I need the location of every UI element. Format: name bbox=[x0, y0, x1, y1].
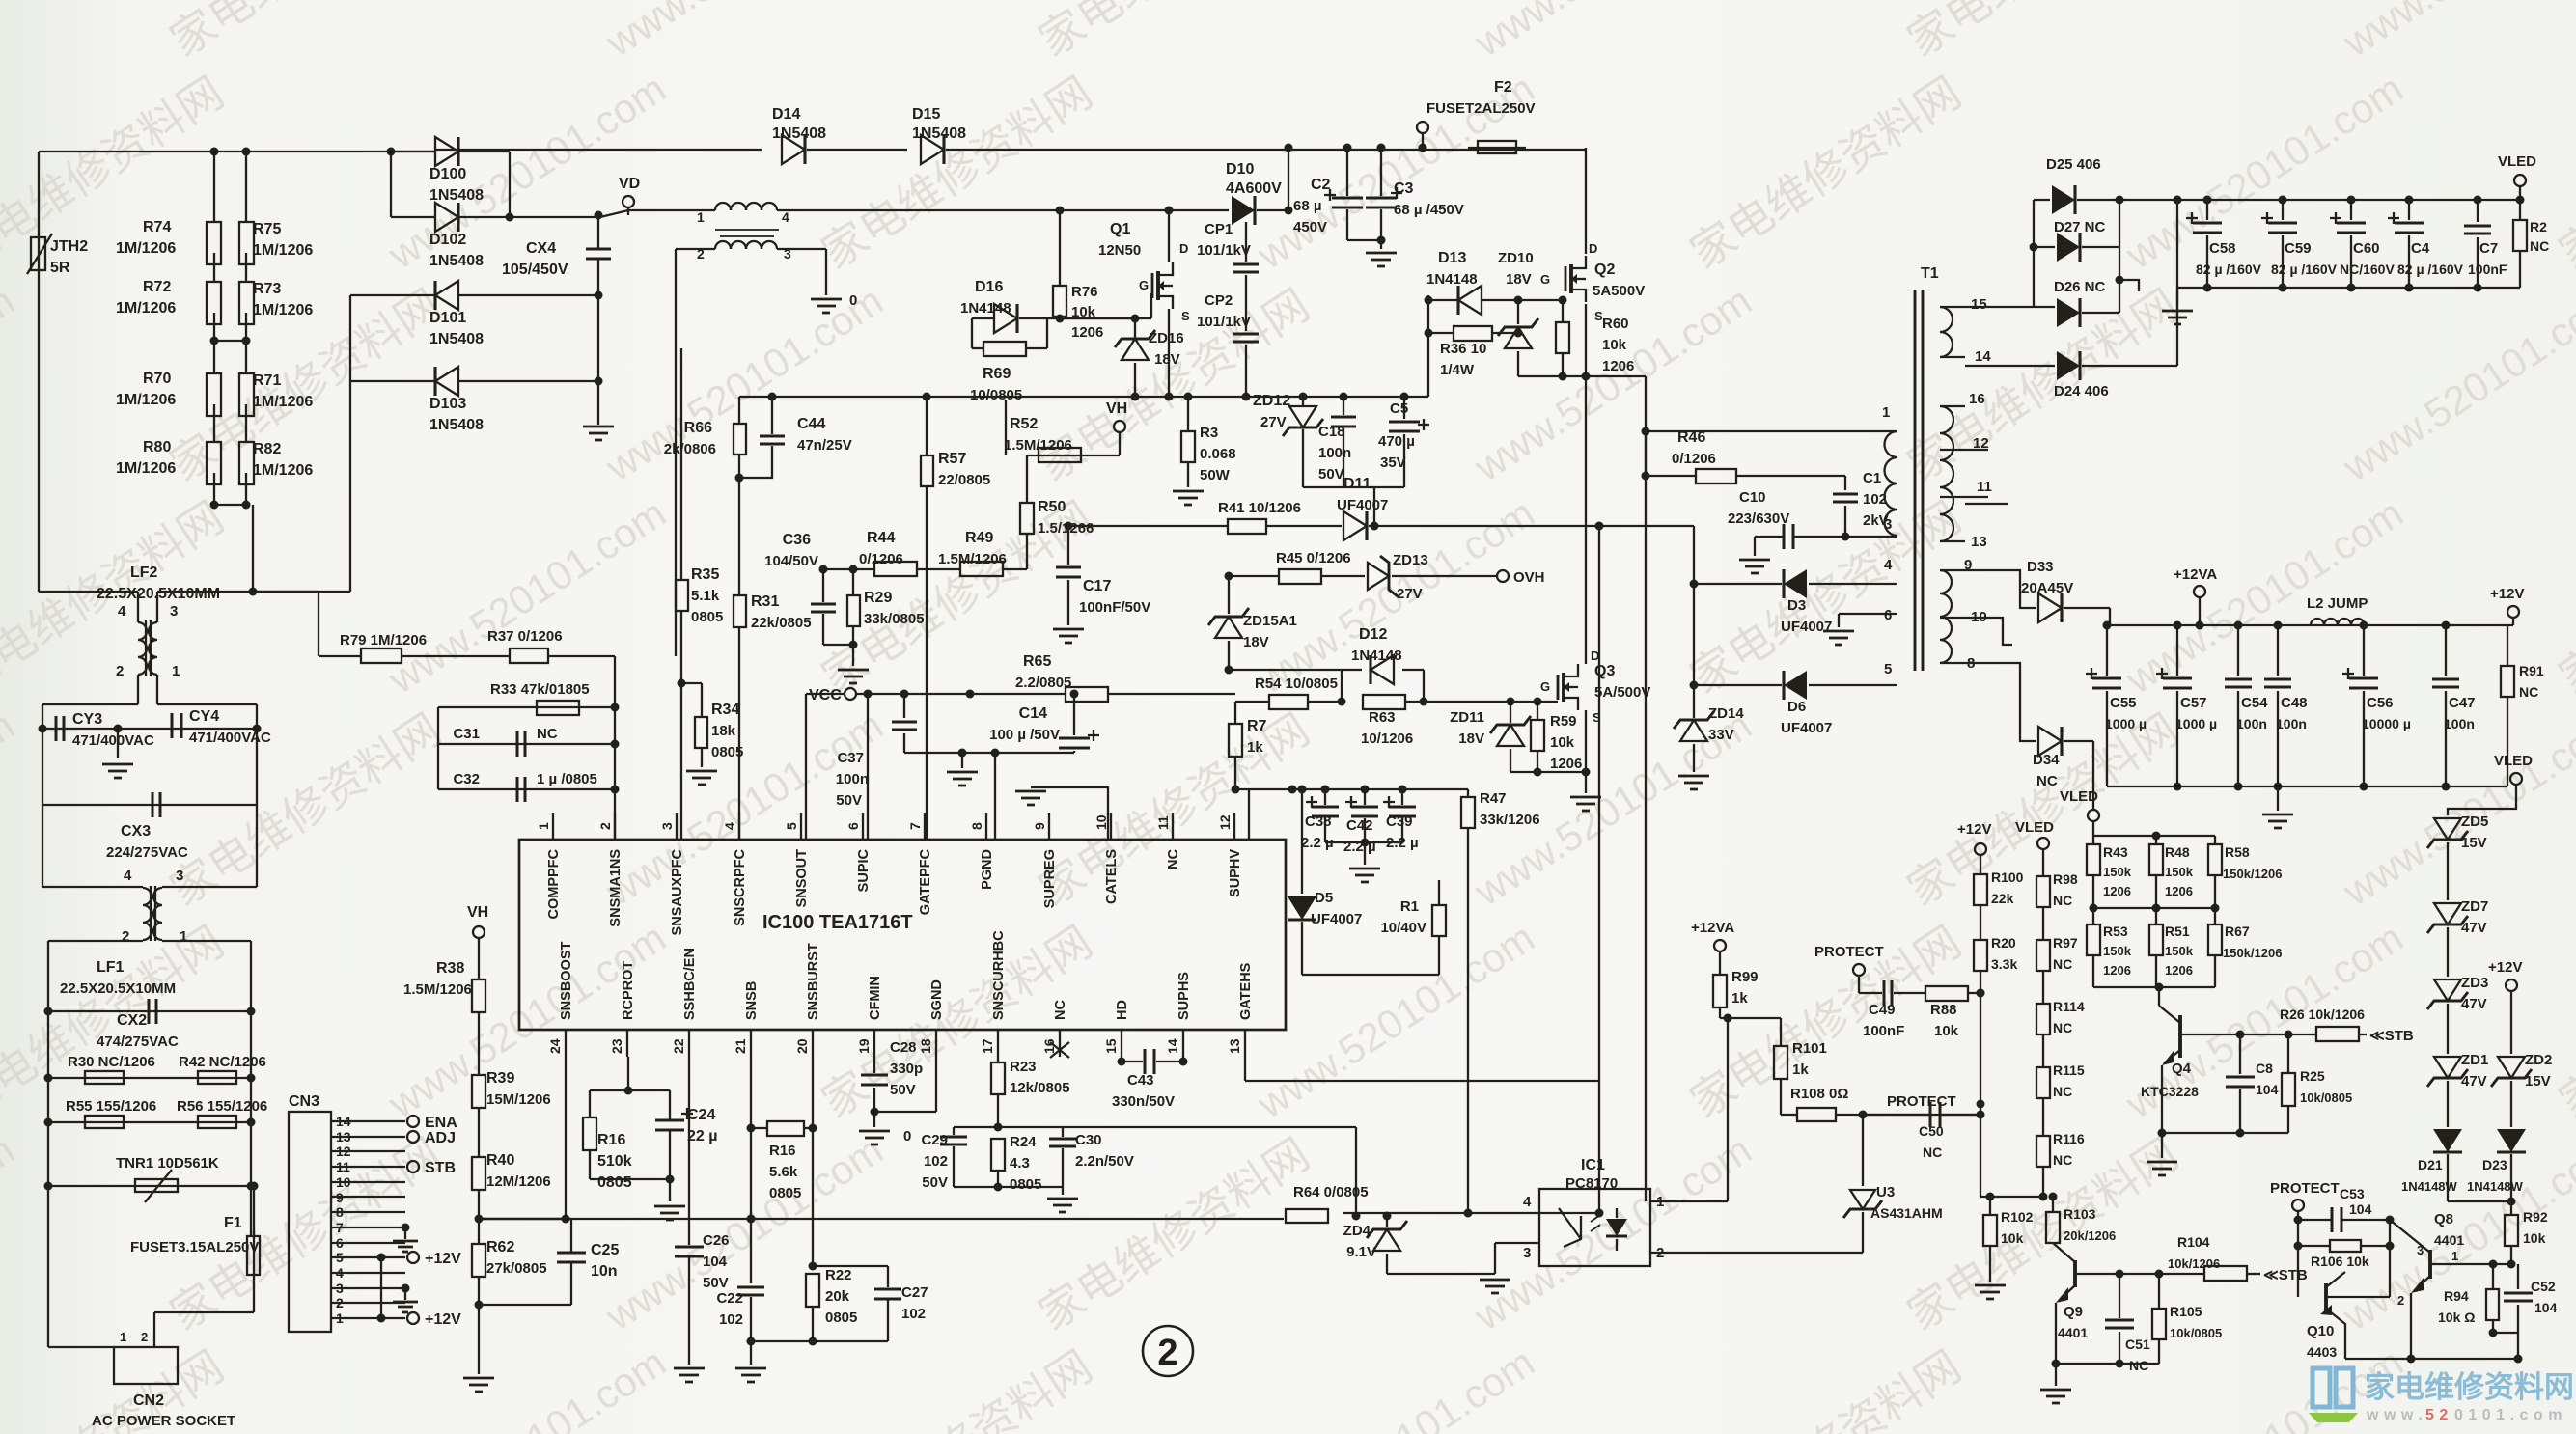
svg-text:+12V: +12V bbox=[425, 1251, 461, 1267]
wire Q8 base row bbox=[2430, 1263, 2511, 1265]
svg-text:NC: NC bbox=[2129, 1358, 2148, 1373]
svg-text:C25: C25 bbox=[591, 1242, 619, 1258]
svg-text:4401: 4401 bbox=[2434, 1232, 2464, 1248]
svg-text:1N5408: 1N5408 bbox=[429, 253, 484, 269]
capacitor C39 bbox=[1401, 789, 1403, 805]
resistor R106 bbox=[2298, 1245, 2330, 1247]
svg-text:C53: C53 bbox=[2340, 1186, 2365, 1201]
zener ZD14 bbox=[1693, 685, 1695, 718]
wire to CN2 bbox=[253, 1281, 255, 1312]
resistor R49 bbox=[917, 568, 960, 570]
svg-text:CX4: CX4 bbox=[526, 240, 556, 257]
resistor R102 bbox=[1989, 1197, 1991, 1215]
svg-text:1: 1 bbox=[1882, 404, 1890, 421]
capacitor CY4 bbox=[172, 713, 181, 738]
svg-text:R59: R59 bbox=[1550, 713, 1577, 730]
svg-text:18V: 18V bbox=[1243, 634, 1269, 650]
svg-text:104: 104 bbox=[2256, 1082, 2279, 1097]
capacitor C59 bbox=[2279, 196, 2287, 205]
capacitor CX3 bbox=[42, 729, 43, 805]
svg-text:12M/1206: 12M/1206 bbox=[486, 1173, 551, 1190]
svg-text:R29: R29 bbox=[864, 590, 892, 606]
svg-text:SNSB: SNSB bbox=[744, 981, 760, 1020]
svg-text:AS431AHM: AS431AHM bbox=[1870, 1205, 1943, 1221]
svg-text:GATEHS: GATEHS bbox=[1238, 962, 1254, 1020]
wire pin8 bbox=[994, 753, 996, 840]
svg-text:R65: R65 bbox=[1023, 653, 1051, 670]
svg-text:0805: 0805 bbox=[597, 1174, 632, 1191]
node 12V pin5 bbox=[407, 1252, 419, 1263]
ground bbox=[2055, 1364, 2057, 1386]
resistor R2 bbox=[2516, 196, 2525, 205]
svg-text:SGND: SGND bbox=[929, 979, 945, 1020]
svg-text:PROTECT: PROTECT bbox=[2270, 1180, 2340, 1197]
ground pin6 bbox=[1838, 614, 1840, 627]
svg-text:100n: 100n bbox=[2276, 716, 2307, 731]
svg-text:13: 13 bbox=[1971, 534, 1987, 550]
svg-text:STB: STB bbox=[425, 1160, 456, 1176]
svg-text:4: 4 bbox=[118, 603, 126, 620]
wire pin2 column bbox=[614, 656, 616, 840]
wire Q4 base row bbox=[2180, 1034, 2316, 1035]
svg-text:450V: 450V bbox=[1293, 219, 1327, 235]
svg-text:≪STB: ≪STB bbox=[2369, 1028, 2414, 1044]
svg-text:R40: R40 bbox=[486, 1152, 514, 1169]
svg-text:47V: 47V bbox=[2461, 1073, 2487, 1089]
transistor Q8 bbox=[2428, 1250, 2432, 1279]
svg-text:D23: D23 bbox=[2482, 1157, 2507, 1172]
node VCC bbox=[845, 688, 856, 700]
capacitor CX2 bbox=[48, 1010, 251, 1012]
wire feedback vertical bbox=[1645, 431, 1647, 1201]
transformer T1 winding 9-10-8 bbox=[1940, 569, 1965, 571]
svg-text:20: 20 bbox=[794, 1038, 810, 1054]
svg-text:10000 µ: 10000 µ bbox=[2362, 716, 2411, 731]
svg-text:D3: D3 bbox=[1787, 597, 1806, 614]
node 12V right bbox=[2506, 979, 2517, 991]
svg-text:R46: R46 bbox=[1677, 429, 1705, 446]
svg-text:3: 3 bbox=[659, 822, 675, 830]
resistor R20 bbox=[1980, 905, 1981, 940]
svg-text:82 µ /160V: 82 µ /160V bbox=[2271, 262, 2338, 277]
svg-text:C17: C17 bbox=[1083, 578, 1111, 594]
resistor R24 bbox=[991, 1139, 1005, 1171]
resistor R59 bbox=[1537, 702, 1538, 720]
svg-text:UF4007: UF4007 bbox=[1311, 911, 1362, 927]
resistor R36 bbox=[1427, 295, 1429, 397]
svg-text:SNSBOOST: SNSBOOST bbox=[559, 941, 574, 1020]
wire bbox=[1288, 148, 1289, 210]
svg-text:NC: NC bbox=[2053, 1020, 2072, 1035]
capacitor C26 bbox=[688, 1057, 690, 1245]
svg-text:C60: C60 bbox=[2353, 240, 2380, 257]
svg-text:R99: R99 bbox=[1731, 969, 1759, 985]
svg-text:50W: 50W bbox=[1200, 467, 1231, 483]
svg-text:R42 NC/1206: R42 NC/1206 bbox=[179, 1054, 266, 1070]
svg-text:27k/0805: 27k/0805 bbox=[486, 1260, 547, 1277]
svg-text:G: G bbox=[1540, 679, 1550, 694]
wire bbox=[954, 1186, 1063, 1188]
svg-text:D26 NC: D26 NC bbox=[2054, 279, 2106, 295]
svg-text:D100: D100 bbox=[429, 166, 466, 182]
svg-text:150k: 150k bbox=[2103, 944, 2132, 958]
svg-text:3.3k: 3.3k bbox=[1991, 956, 2017, 972]
svg-text:2: 2 bbox=[116, 663, 124, 679]
svg-text:0805: 0805 bbox=[691, 609, 723, 625]
wire bbox=[2448, 1200, 2511, 1202]
capacitor CP1 bbox=[1245, 222, 1247, 262]
capacitor C10 bbox=[1755, 536, 1783, 538]
svg-text:R66: R66 bbox=[684, 420, 712, 436]
svg-text:C49: C49 bbox=[1869, 1002, 1896, 1018]
svg-text:50V: 50V bbox=[922, 1174, 948, 1191]
diode D12 bbox=[1229, 669, 1342, 671]
diode D16 bbox=[971, 318, 973, 348]
svg-text:150k/1206: 150k/1206 bbox=[2223, 867, 2282, 881]
svg-text:D102: D102 bbox=[429, 232, 466, 248]
svg-text:C50: C50 bbox=[1919, 1123, 1944, 1139]
svg-text:5: 5 bbox=[784, 822, 799, 830]
svg-text:102: 102 bbox=[1863, 491, 1887, 508]
svg-text:R41 10/1206: R41 10/1206 bbox=[1218, 500, 1301, 516]
svg-text:5R: 5R bbox=[50, 260, 70, 276]
svg-text:R22: R22 bbox=[825, 1267, 852, 1283]
svg-text:10k: 10k bbox=[1550, 734, 1575, 751]
wire U3 column bbox=[1862, 1115, 1864, 1186]
svg-text:22/0805: 22/0805 bbox=[938, 472, 990, 488]
node VLED bbox=[2514, 175, 2526, 186]
svg-text:82 µ /160V: 82 µ /160V bbox=[2196, 262, 2262, 277]
svg-text:C22: C22 bbox=[716, 1290, 743, 1307]
svg-text:1: 1 bbox=[697, 209, 705, 225]
capacitor C48 bbox=[2277, 625, 2279, 676]
svg-text:100n: 100n bbox=[836, 771, 869, 787]
resistor R48 bbox=[2155, 836, 2157, 844]
svg-text:50V: 50V bbox=[1318, 466, 1344, 483]
svg-text:2.2 µ: 2.2 µ bbox=[1343, 839, 1376, 855]
svg-text:33k/1206: 33k/1206 bbox=[1480, 812, 1540, 828]
resistor R56 bbox=[198, 1116, 236, 1128]
resistor R1 bbox=[1302, 974, 1439, 976]
svg-text:R100: R100 bbox=[1991, 869, 2024, 885]
svg-text:1206: 1206 bbox=[1550, 756, 1582, 772]
svg-text:150k/1206: 150k/1206 bbox=[2223, 946, 2282, 960]
svg-text:RCPROT: RCPROT bbox=[621, 961, 636, 1020]
capacitor C7 bbox=[2474, 196, 2482, 205]
resistor R92 bbox=[2510, 1201, 2512, 1215]
svg-text:10k Ω: 10k Ω bbox=[2438, 1310, 2475, 1325]
ground bbox=[117, 729, 119, 758]
svg-text:ZD1: ZD1 bbox=[2461, 1052, 2488, 1068]
diode D6 bbox=[1694, 684, 1782, 686]
svg-text:D: D bbox=[1179, 241, 1188, 256]
svg-text:0/1206: 0/1206 bbox=[859, 551, 903, 567]
svg-text:1206: 1206 bbox=[2103, 884, 2131, 898]
svg-text:0805: 0805 bbox=[1010, 1176, 1041, 1193]
svg-text:C57: C57 bbox=[2180, 695, 2207, 711]
resistor R74 bbox=[213, 152, 215, 222]
svg-text:R50: R50 bbox=[1038, 499, 1066, 515]
svg-text:Q2: Q2 bbox=[1594, 262, 1615, 278]
svg-text:R116: R116 bbox=[2053, 1131, 2085, 1146]
svg-text:D27 NC: D27 NC bbox=[2054, 219, 2106, 235]
svg-text:0: 0 bbox=[903, 1128, 911, 1144]
svg-text:www.: www. bbox=[2366, 1407, 2427, 1423]
resistor R64 bbox=[1286, 1209, 1328, 1223]
svg-text:6: 6 bbox=[1884, 607, 1892, 623]
svg-text:18V: 18V bbox=[1458, 731, 1484, 747]
IC100 TEA1716T bbox=[519, 840, 1286, 1030]
resistor R50 bbox=[1003, 568, 1027, 570]
svg-text:VCC: VCC bbox=[809, 687, 842, 703]
wire bbox=[437, 707, 439, 789]
svg-text:R70: R70 bbox=[143, 371, 171, 387]
wire source rail Q2 bbox=[1518, 375, 1646, 377]
svg-text:LF2: LF2 bbox=[130, 565, 158, 581]
svg-text:C36: C36 bbox=[783, 532, 811, 548]
svg-text:10k/1206: 10k/1206 bbox=[2168, 1256, 2220, 1271]
resistor R75 bbox=[245, 152, 247, 222]
svg-text:18: 18 bbox=[918, 1038, 933, 1054]
svg-text:1N5408: 1N5408 bbox=[429, 331, 484, 347]
svg-text:Q1: Q1 bbox=[1110, 221, 1130, 237]
resistor R58 bbox=[2214, 836, 2216, 844]
svg-text:12: 12 bbox=[1217, 814, 1233, 830]
svg-text:R16: R16 bbox=[597, 1132, 625, 1148]
svg-text:C4: C4 bbox=[2411, 240, 2430, 257]
svg-text:8: 8 bbox=[969, 822, 984, 830]
svg-text:3: 3 bbox=[2417, 1243, 2424, 1257]
svg-text:VD: VD bbox=[619, 176, 640, 192]
capacitor CY3 bbox=[42, 728, 257, 730]
resistor R66 bbox=[738, 397, 740, 424]
resistor R43 bbox=[2092, 836, 2094, 844]
resistor R57 bbox=[926, 397, 928, 455]
svg-text:C59: C59 bbox=[2285, 240, 2312, 257]
resistor R45 bbox=[1229, 575, 1279, 577]
svg-text:5.6k: 5.6k bbox=[769, 1164, 798, 1180]
svg-text:R74: R74 bbox=[143, 219, 171, 235]
svg-text:R54 10/0805: R54 10/0805 bbox=[1255, 676, 1338, 692]
svg-text:1000 µ: 1000 µ bbox=[2175, 716, 2217, 731]
svg-text:D12: D12 bbox=[1359, 626, 1387, 643]
svg-text:+12VA: +12VA bbox=[1691, 920, 1734, 936]
svg-text:2.2n/50V: 2.2n/50V bbox=[1075, 1153, 1134, 1170]
svg-text:ENA: ENA bbox=[425, 1115, 457, 1131]
svg-text:474/275VAC: 474/275VAC bbox=[97, 1034, 179, 1050]
svg-text:ZD15A1: ZD15A1 bbox=[1243, 613, 1297, 629]
svg-text:R23: R23 bbox=[1010, 1059, 1037, 1075]
wire mid bbox=[2092, 875, 2094, 924]
svg-text:22.5X20.5X10MM: 22.5X20.5X10MM bbox=[60, 980, 176, 997]
svg-text:U3: U3 bbox=[1876, 1184, 1895, 1200]
capacitor C17 bbox=[1056, 567, 1081, 577]
svg-text:NC: NC bbox=[2530, 238, 2549, 254]
svg-text:23: 23 bbox=[609, 1038, 624, 1054]
svg-text:C26: C26 bbox=[703, 1232, 730, 1249]
wire Q4 emitter bbox=[2161, 1065, 2163, 1133]
ground bbox=[583, 427, 614, 440]
svg-text:R104: R104 bbox=[2177, 1234, 2210, 1250]
wire F2 to Q2 bbox=[1585, 148, 1587, 254]
ground bbox=[2277, 786, 2279, 811]
svg-text:101/1kV: 101/1kV bbox=[1197, 242, 1251, 259]
ground bbox=[1975, 1285, 2006, 1299]
svg-text:27V: 27V bbox=[1397, 586, 1423, 602]
resistor R22 bbox=[812, 1128, 814, 1266]
svg-text:VLED: VLED bbox=[2498, 153, 2536, 170]
capacitor C2 bbox=[1346, 148, 1348, 196]
svg-text:CFMIN: CFMIN bbox=[868, 976, 883, 1020]
svg-text:R72: R72 bbox=[143, 279, 171, 295]
svg-text:CP1: CP1 bbox=[1205, 221, 1233, 237]
svg-text:1N5408: 1N5408 bbox=[912, 125, 966, 142]
svg-text:1N4148W: 1N4148W bbox=[2467, 1179, 2524, 1194]
node VH bbox=[1119, 432, 1121, 455]
svg-text:R115: R115 bbox=[2053, 1062, 2085, 1078]
resistor R97 bbox=[2042, 907, 2044, 940]
svg-text:24: 24 bbox=[547, 1038, 563, 1054]
capacitor C3 bbox=[1380, 148, 1382, 196]
svg-text:CX2: CX2 bbox=[117, 1012, 147, 1029]
capacitor CP2 bbox=[1245, 275, 1247, 331]
svg-text:10: 10 bbox=[1971, 609, 1987, 625]
svg-text:C10: C10 bbox=[1739, 489, 1766, 506]
svg-text:1M/1206: 1M/1206 bbox=[253, 462, 313, 479]
resistor R103 bbox=[2052, 1197, 2054, 1212]
svg-text:SUPHV: SUPHV bbox=[1228, 849, 1243, 897]
svg-text:C44: C44 bbox=[797, 416, 825, 432]
resistor R65 bbox=[1066, 687, 1108, 702]
svg-text:Q3: Q3 bbox=[1594, 663, 1615, 679]
svg-text:100n: 100n bbox=[2236, 716, 2267, 731]
svg-text:+12V: +12V bbox=[1957, 821, 1991, 838]
wire pin10 ground bbox=[1031, 787, 1108, 840]
svg-text:NC: NC bbox=[2519, 684, 2538, 700]
svg-text:0.068: 0.068 bbox=[1200, 446, 1236, 462]
svg-text:R39: R39 bbox=[486, 1070, 514, 1087]
svg-text:35V: 35V bbox=[1380, 455, 1406, 471]
svg-text:R48: R48 bbox=[2165, 844, 2190, 860]
svg-text:R37 0/1206: R37 0/1206 bbox=[487, 628, 563, 645]
wire pin6 bbox=[867, 694, 869, 840]
svg-text:R94: R94 bbox=[2444, 1288, 2469, 1304]
svg-text:1: 1 bbox=[172, 663, 180, 679]
ground bbox=[478, 1277, 480, 1374]
svg-text:1206: 1206 bbox=[1602, 358, 1634, 374]
diode D5 bbox=[1301, 789, 1303, 894]
svg-text:NC/160V: NC/160V bbox=[2340, 262, 2395, 277]
svg-text:0: 0 bbox=[849, 292, 857, 309]
svg-text:2: 2 bbox=[141, 1330, 148, 1344]
svg-text:102: 102 bbox=[924, 1153, 948, 1170]
svg-text:R71: R71 bbox=[253, 372, 281, 389]
svg-text:CY4: CY4 bbox=[189, 708, 219, 725]
svg-text:R73: R73 bbox=[253, 281, 281, 297]
svg-text:NC: NC bbox=[2053, 1152, 2072, 1168]
wire Q8 emitter bbox=[2410, 1293, 2412, 1359]
diode D14 bbox=[782, 135, 805, 164]
resistor R70 bbox=[207, 373, 221, 416]
svg-text:4401: 4401 bbox=[2058, 1325, 2088, 1340]
svg-text:R79 1M/1206: R79 1M/1206 bbox=[340, 632, 427, 648]
svg-text:+12VA: +12VA bbox=[2174, 566, 2217, 583]
diode D10 bbox=[1232, 196, 1255, 225]
node ADJ bbox=[407, 1131, 419, 1143]
ground bbox=[2161, 1133, 2163, 1158]
resistor R51 bbox=[2149, 924, 2163, 955]
wire bottom bbox=[2092, 955, 2094, 987]
svg-text:C37: C37 bbox=[837, 750, 864, 766]
resistor R62 bbox=[478, 1190, 480, 1244]
svg-text:1/4W: 1/4W bbox=[1440, 362, 1475, 378]
svg-text:104: 104 bbox=[2349, 1201, 2372, 1217]
svg-text:1M/1206: 1M/1206 bbox=[116, 460, 176, 477]
diode D21 bbox=[2433, 1129, 2462, 1152]
svg-text:R33 47k/01805: R33 47k/01805 bbox=[490, 681, 590, 698]
svg-text:1k: 1k bbox=[1792, 1062, 1809, 1078]
svg-text:R88: R88 bbox=[1930, 1002, 1957, 1018]
capacitor C56 bbox=[2363, 625, 2365, 676]
ground bbox=[1380, 240, 1382, 249]
svg-text:150k: 150k bbox=[2103, 865, 2132, 879]
wire IC1 pin1 bbox=[1650, 1200, 1728, 1202]
svg-text:Q9: Q9 bbox=[2064, 1304, 2083, 1320]
svg-text:C29: C29 bbox=[921, 1132, 948, 1148]
svg-text:SNSCURHBC: SNSCURHBC bbox=[991, 930, 1007, 1020]
resistor R46 bbox=[1645, 431, 1647, 476]
svg-text:SNSMA1NS: SNSMA1NS bbox=[608, 849, 623, 927]
svg-text:104/50V: 104/50V bbox=[764, 553, 818, 569]
node OVH bbox=[1497, 570, 1509, 582]
svg-text:R34: R34 bbox=[711, 702, 739, 718]
node VD bbox=[623, 196, 634, 207]
capacitor C27 bbox=[813, 1265, 888, 1267]
svg-text:12N50: 12N50 bbox=[1098, 242, 1141, 259]
svg-text:224/275VAC: 224/275VAC bbox=[106, 844, 188, 861]
svg-text:10k: 10k bbox=[2523, 1230, 2546, 1246]
svg-text:GATEPFC: GATEPFC bbox=[918, 848, 933, 915]
svg-text:1206: 1206 bbox=[2165, 884, 2193, 898]
svg-text:1M/1206: 1M/1206 bbox=[253, 302, 313, 318]
svg-text:C27: C27 bbox=[901, 1284, 928, 1301]
svg-text:UF4007: UF4007 bbox=[1781, 720, 1832, 736]
svg-text:R114: R114 bbox=[2053, 999, 2085, 1014]
resistor R67 bbox=[2208, 924, 2222, 955]
svg-text:ZD12: ZD12 bbox=[1253, 393, 1290, 409]
wire bbox=[2042, 1167, 2044, 1197]
svg-text:0/1206: 0/1206 bbox=[1672, 451, 1716, 467]
diode D100 bbox=[391, 151, 434, 152]
svg-text:1.5M/1206: 1.5M/1206 bbox=[938, 551, 1007, 567]
svg-text:10k: 10k bbox=[1602, 337, 1627, 353]
wire Q9 base row bbox=[2075, 1273, 2204, 1275]
svg-text:50V: 50V bbox=[703, 1275, 729, 1291]
svg-text:1000 µ: 1000 µ bbox=[2105, 716, 2147, 731]
fuse F1 bbox=[253, 1186, 255, 1236]
svg-text:COMPPFC: COMPPFC bbox=[546, 848, 562, 919]
resistor R105 bbox=[2158, 1274, 2160, 1309]
svg-text:1N4148: 1N4148 bbox=[1426, 271, 1478, 288]
svg-text:C24: C24 bbox=[687, 1107, 715, 1123]
page number 2 bbox=[1143, 1326, 1193, 1376]
diode D101 bbox=[435, 281, 458, 310]
svg-text:R92: R92 bbox=[2523, 1209, 2548, 1225]
wire bottom rail bbox=[2345, 1358, 2518, 1360]
svg-text:12: 12 bbox=[1973, 435, 1989, 452]
capacitor C14 bbox=[1073, 694, 1075, 735]
capacitor CX4 bbox=[597, 215, 599, 249]
